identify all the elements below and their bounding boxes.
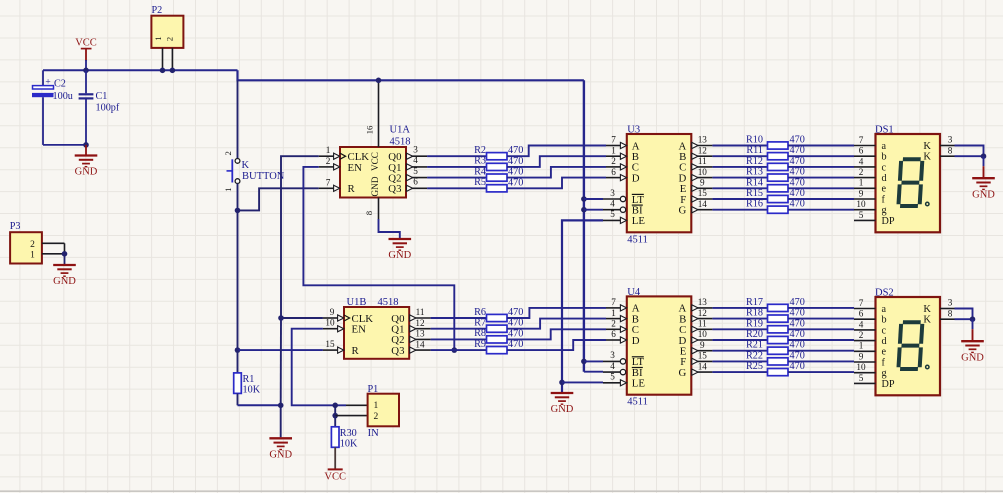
svg-text:R5: R5 (474, 177, 486, 188)
connector P3 (10, 221, 42, 263)
wire Q0 to R2 (427, 155, 486, 157)
svg-text:LE: LE (632, 378, 646, 390)
svg-text:P2: P2 (152, 5, 163, 16)
wire U pin to R22 (712, 360, 767, 362)
pin 15 of U4 (691, 351, 712, 365)
svg-text:R9: R9 (474, 339, 486, 350)
wire to U1B CLK pin (281, 317, 323, 319)
decimal point of DS2 (926, 365, 929, 368)
wire CLK net down to rail (280, 318, 282, 405)
wire Q1 U1B to R7 (431, 328, 487, 330)
svg-text:GND: GND (551, 404, 574, 415)
pin 14 of U3 (691, 199, 712, 213)
svg-text:100u: 100u (53, 91, 73, 102)
wire U1A EN feedback net (303, 167, 454, 350)
pin 6 of U1A (406, 177, 427, 192)
svg-text:LE: LE (632, 215, 646, 227)
junction gnd branch (278, 403, 284, 409)
wire Q1 to R3 (427, 166, 486, 168)
wire button line down (237, 210, 239, 350)
pin 5 of DS2 (854, 373, 876, 384)
svg-text:16: 16 (365, 125, 375, 134)
wire to U1B R pin (238, 349, 323, 351)
wire main VCC rail (43, 70, 584, 80)
svg-text:10: 10 (698, 329, 708, 339)
wire R11 to display (788, 155, 854, 157)
svg-text:2: 2 (611, 156, 616, 166)
svg-text:R25: R25 (746, 361, 763, 372)
svg-text:470: 470 (790, 156, 805, 167)
wire U pin to R21 (712, 350, 767, 352)
pin 9 of U1B (323, 307, 344, 321)
IC U1B 4518 (344, 297, 409, 359)
svg-text:DS1: DS1 (875, 125, 894, 136)
svg-text:a: a (882, 304, 887, 315)
svg-text:1: 1 (30, 250, 35, 260)
pin 4 of U4 BI (603, 361, 626, 375)
wire R10 to display (788, 145, 854, 147)
pin 8 of DS1 (940, 145, 955, 156)
svg-text:VCC: VCC (324, 471, 346, 482)
wire R13 to display (788, 177, 854, 179)
junction feedback Q3 (452, 347, 458, 353)
junction U1B R row (235, 347, 241, 353)
pin 9 of DS2 (854, 351, 876, 362)
wire R4 to U3 pin (507, 167, 606, 178)
resistor R18 470 (746, 308, 805, 323)
wire R19 to display (788, 328, 854, 330)
svg-text:P3: P3 (10, 221, 21, 232)
seven segment digit of DS1 (898, 159, 922, 206)
svg-text:5: 5 (413, 166, 418, 176)
pin 10 of DS1 (854, 199, 876, 210)
svg-text:9: 9 (859, 351, 864, 361)
svg-text:2: 2 (165, 37, 175, 41)
pin 6 of DS2 (854, 309, 876, 320)
resistor R22 470 (746, 350, 805, 365)
ground of DS1 (972, 156, 995, 200)
wire LE vertical net (562, 220, 603, 392)
svg-text:470: 470 (790, 145, 805, 156)
wire R25 to display (788, 371, 854, 373)
junction U4 LE (559, 380, 565, 386)
pin 2 of P1 (335, 415, 367, 417)
wire to U3 LT (584, 198, 603, 200)
svg-text:470: 470 (790, 340, 805, 351)
wire Q3 U1B to R9 (431, 349, 487, 351)
resistor R4 470 (474, 166, 523, 181)
wire U pin to R20 (712, 339, 767, 341)
pin 16 of U1A (365, 80, 379, 147)
resistor R1 (234, 350, 261, 405)
pin 7 of DS2 (854, 298, 876, 309)
svg-text:5: 5 (859, 210, 864, 220)
svg-text:13: 13 (415, 329, 425, 339)
svg-text:R4: R4 (474, 166, 486, 177)
pin 7 of DS1 (854, 135, 876, 146)
svg-text:4: 4 (859, 319, 864, 329)
display DS2 (875, 288, 940, 396)
capacitor C2 (32, 70, 86, 145)
resistor R21 470 (746, 340, 805, 355)
svg-text:K: K (242, 160, 250, 171)
wire U pin to R18 (712, 318, 767, 320)
junction C1 C2 ground (83, 142, 89, 148)
wire DS1 common to ground (955, 146, 984, 157)
svg-text:2: 2 (859, 330, 864, 340)
pin 2 of P3 (42, 242, 65, 244)
junction VCC rail (83, 68, 89, 74)
svg-text:470: 470 (790, 350, 805, 361)
pin 5 of U1A (406, 166, 427, 181)
svg-text:4511: 4511 (627, 397, 648, 408)
pin 6 of U3 (606, 167, 627, 181)
svg-text:G: G (678, 367, 686, 379)
svg-text:U1B: U1B (347, 297, 367, 308)
svg-text:R1: R1 (243, 374, 255, 385)
IC U1A 4518 (340, 125, 411, 198)
wire Q2 to R4 (427, 177, 486, 179)
pin 15 of U1B (323, 339, 344, 353)
svg-text:R12: R12 (746, 156, 763, 167)
svg-text:4: 4 (610, 199, 615, 209)
wire U1B EN net (292, 329, 346, 406)
pin 7 of U1A (319, 177, 340, 191)
wire to U4 LT (584, 360, 603, 362)
connector P1 (368, 384, 400, 439)
svg-text:R11: R11 (746, 145, 763, 156)
svg-text:2: 2 (326, 156, 331, 166)
svg-text:10: 10 (856, 362, 866, 372)
svg-text:470: 470 (790, 361, 805, 372)
svg-text:GND: GND (961, 352, 984, 363)
svg-text:d: d (882, 173, 887, 184)
svg-text:GND: GND (388, 250, 411, 261)
svg-text:1: 1 (153, 36, 163, 40)
wire U1A CLK net (281, 156, 319, 318)
junction U4 LT (581, 359, 587, 365)
svg-text:10: 10 (325, 318, 335, 328)
svg-text:d: d (882, 336, 887, 347)
wire to U4 LE (562, 381, 603, 383)
svg-text:6: 6 (859, 146, 864, 156)
svg-text:470: 470 (508, 307, 523, 318)
pin 11 of U1B (409, 307, 430, 321)
resistor R19 470 (746, 318, 805, 333)
decimal point of DS1 (926, 202, 929, 205)
wire button to U1A R pin (238, 188, 319, 210)
pin 10 of DS2 (854, 362, 876, 373)
svg-text:R14: R14 (746, 177, 763, 188)
wire U pin to R15 (712, 198, 767, 200)
svg-text:6: 6 (413, 177, 418, 187)
svg-text:2: 2 (611, 319, 616, 329)
svg-text:P1: P1 (368, 384, 379, 395)
junction P2 pin1 (160, 68, 166, 74)
junction P3 ground (62, 251, 68, 257)
seven segment digit of DS2 (898, 322, 922, 369)
wire R16 to display (788, 209, 854, 211)
svg-text:U3: U3 (627, 125, 640, 136)
ground of DS2 (961, 319, 984, 363)
junction U3 BI (581, 207, 587, 213)
svg-text:7: 7 (859, 135, 864, 145)
svg-text:470: 470 (508, 156, 523, 167)
svg-text:100pf: 100pf (96, 103, 120, 114)
svg-text:1: 1 (859, 178, 864, 188)
resistor R15 470 (746, 188, 805, 203)
pin 9 of U3 (691, 178, 712, 192)
resistor R25 470 (746, 361, 805, 376)
svg-text:R3: R3 (474, 156, 486, 167)
svg-text:4518: 4518 (390, 137, 411, 148)
svg-text:4: 4 (413, 155, 418, 165)
svg-text:8: 8 (948, 145, 953, 155)
svg-text:DS2: DS2 (875, 288, 894, 299)
resistor R2 470 (474, 145, 523, 160)
svg-text:R19: R19 (746, 318, 763, 329)
svg-text:R15: R15 (746, 188, 763, 199)
pin 1 of P2 (162, 48, 164, 70)
wire R2 to U3 pin (507, 146, 606, 157)
pin 15 of U3 (691, 188, 712, 202)
wire U pin to R11 (712, 155, 767, 157)
svg-text:470: 470 (790, 297, 805, 308)
IC U3 4511 (627, 125, 692, 246)
resistor R30 (331, 416, 358, 450)
power VCC top (75, 38, 97, 71)
pin 1 of P1 (346, 404, 368, 406)
pin 13 of U4 (691, 297, 712, 311)
svg-text:13: 13 (698, 297, 708, 307)
svg-text:12: 12 (698, 145, 708, 155)
ground center (269, 405, 292, 460)
pin 13 of U3 (691, 135, 712, 149)
wire DS2 common to ground (955, 309, 973, 320)
connector P2 (151, 5, 183, 48)
resistor R12 470 (746, 156, 805, 171)
svg-text:1: 1 (611, 308, 616, 318)
svg-text:470: 470 (508, 145, 523, 156)
display DS1 (875, 125, 940, 233)
svg-text:4511: 4511 (627, 234, 648, 245)
svg-text:5: 5 (859, 373, 864, 383)
resistor R3 470 (474, 156, 523, 171)
wire to U4 BI corner (584, 371, 603, 373)
pin 1 of DS1 (854, 178, 876, 189)
svg-text:15: 15 (325, 339, 335, 349)
wire R14 to display (788, 187, 854, 189)
svg-text:3: 3 (610, 188, 615, 198)
wire R7 to U4 pin (507, 319, 606, 329)
junction P2 pin2 (170, 68, 176, 74)
svg-text:470: 470 (790, 177, 805, 188)
svg-text:VCC: VCC (75, 38, 97, 49)
svg-text:G: G (678, 205, 686, 217)
junction U3 LT (581, 196, 587, 202)
svg-text:470: 470 (790, 167, 805, 178)
svg-text:7: 7 (326, 177, 331, 187)
junction P1 net (332, 403, 338, 409)
pin 8 of U1A (364, 198, 379, 220)
wire Q0 U1B to R6 (431, 317, 487, 319)
svg-text:+: + (45, 78, 50, 88)
svg-text:470: 470 (508, 318, 523, 329)
pin 12 of U1B (409, 318, 430, 332)
wire R30 branch (334, 405, 336, 415)
wire Q2 U1B to R8 (431, 338, 487, 340)
IC U4 4511 (627, 287, 692, 408)
ground below C1 (75, 145, 98, 178)
pin 5 of DS1 (854, 210, 876, 221)
wire R17 to display (788, 307, 854, 309)
resistor R16 470 (746, 199, 805, 214)
pin 2 of U3 (606, 156, 627, 170)
resistor R17 470 (746, 297, 805, 312)
svg-text:e: e (882, 347, 887, 358)
svg-text:15: 15 (698, 188, 708, 198)
svg-text:6: 6 (611, 167, 616, 177)
wire U pin to R17 (712, 307, 767, 309)
svg-text:6: 6 (859, 309, 864, 319)
pin 3 of U3 LT (603, 188, 626, 202)
svg-text:Q3: Q3 (388, 183, 401, 195)
resistor R13 470 (746, 167, 805, 182)
pin 9 of U4 (691, 340, 712, 354)
svg-text:e: e (882, 184, 887, 195)
junction button output (235, 208, 241, 214)
svg-text:4: 4 (610, 361, 615, 371)
pin 1 of U1A (319, 145, 340, 159)
svg-text:10K: 10K (340, 438, 358, 449)
svg-text:15: 15 (698, 351, 708, 361)
power VCC bottom (324, 447, 346, 482)
junction DS2 common (970, 316, 976, 322)
pin 2 of DS1 (854, 167, 876, 178)
junction P1 pin2 (332, 413, 338, 419)
wire U pin to R12 (712, 166, 767, 168)
svg-text:11: 11 (698, 319, 707, 329)
svg-text:2: 2 (223, 151, 233, 155)
svg-text:K: K (923, 315, 931, 326)
svg-text:3: 3 (948, 135, 953, 145)
pin 1 of U3 (606, 145, 627, 159)
svg-text:g: g (882, 368, 887, 379)
svg-text:C2: C2 (54, 79, 66, 90)
svg-text:GND: GND (53, 276, 76, 287)
svg-text:12: 12 (698, 308, 708, 318)
svg-text:GND: GND (972, 189, 995, 200)
pin 11 of U4 (691, 319, 712, 333)
svg-text:10: 10 (856, 199, 866, 209)
svg-text:470: 470 (790, 329, 805, 340)
svg-text:R30: R30 (340, 428, 357, 439)
svg-text:1: 1 (374, 401, 379, 411)
svg-text:R17: R17 (746, 297, 763, 308)
svg-text:2: 2 (859, 167, 864, 177)
wire R22 to display (788, 360, 854, 362)
svg-text:12: 12 (415, 318, 425, 328)
svg-text:K: K (923, 152, 931, 163)
svg-text:2: 2 (374, 412, 379, 422)
svg-text:7: 7 (611, 297, 616, 307)
resistor R11 470 (746, 145, 804, 160)
resistor R6 470 (474, 307, 523, 322)
pin 7 of U4 (606, 297, 627, 311)
svg-text:3: 3 (413, 144, 418, 154)
svg-text:R21: R21 (746, 340, 763, 351)
svg-text:470: 470 (790, 318, 805, 329)
svg-text:4518: 4518 (378, 297, 399, 308)
svg-text:R22: R22 (746, 350, 763, 361)
pin 10 of U3 (691, 167, 712, 181)
svg-text:4: 4 (859, 156, 864, 166)
svg-text:7: 7 (859, 298, 864, 308)
svg-text:D: D (632, 172, 640, 184)
svg-text:470: 470 (790, 308, 805, 319)
pin 3 of DS1 (940, 135, 955, 146)
svg-text:14: 14 (698, 361, 708, 371)
svg-text:11: 11 (698, 156, 707, 166)
pin 11 of U3 (691, 156, 712, 170)
svg-text:R16: R16 (746, 199, 763, 210)
switch K BUTTON (223, 80, 285, 210)
pin 4 of U3 BI (603, 199, 626, 213)
svg-text:f: f (882, 194, 886, 205)
svg-text:b: b (882, 315, 887, 326)
svg-text:R2: R2 (474, 145, 486, 156)
svg-text:c: c (882, 325, 887, 336)
pin 8 of DS2 (940, 308, 955, 319)
svg-text:8: 8 (364, 210, 374, 215)
pin 6 of U4 (606, 329, 627, 343)
pin 7 of U3 (606, 135, 627, 149)
svg-text:9: 9 (859, 188, 864, 198)
pin 4 of DS1 (854, 156, 876, 167)
svg-text:R13: R13 (746, 167, 763, 178)
svg-text:VCC: VCC (370, 152, 380, 171)
ground of P3 (53, 254, 76, 287)
wire to U3 BI (584, 209, 603, 211)
svg-text:b: b (882, 152, 887, 163)
resistor R7 470 (474, 318, 523, 333)
wire R6 to U4 pin (507, 308, 606, 318)
svg-text:6: 6 (611, 329, 616, 339)
svg-text:470: 470 (508, 339, 523, 350)
wire R18 to display (788, 318, 854, 320)
svg-text:9: 9 (330, 307, 335, 317)
svg-text:10K: 10K (243, 384, 261, 395)
wire U pin to R10 (712, 145, 767, 147)
svg-text:R: R (348, 183, 356, 195)
svg-text:7: 7 (611, 135, 616, 145)
svg-text:EN: EN (352, 324, 367, 336)
resistor R9 470 (474, 339, 523, 354)
pin 3 of DS2 (940, 298, 955, 309)
svg-text:10: 10 (698, 167, 708, 177)
svg-text:5: 5 (610, 209, 615, 219)
svg-text:R18: R18 (746, 308, 763, 319)
ground below U1A (389, 239, 412, 250)
svg-text:BUTTON: BUTTON (242, 171, 285, 182)
svg-text:R8: R8 (474, 328, 486, 339)
svg-text:R20: R20 (746, 329, 763, 340)
svg-text:470: 470 (508, 167, 523, 178)
pin 14 of U4 (691, 361, 712, 375)
wire R12 to display (788, 166, 854, 168)
svg-text:C1: C1 (96, 91, 108, 102)
pin 1 of P3 (42, 253, 65, 255)
